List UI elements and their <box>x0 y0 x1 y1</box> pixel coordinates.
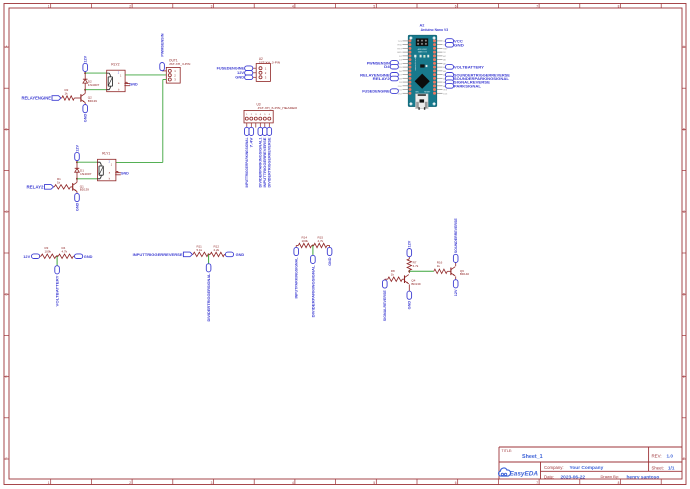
svg-text:12V: 12V <box>454 289 458 296</box>
svg-text:GND: GND <box>235 75 244 80</box>
svg-text:4.7k: 4.7k <box>62 250 68 254</box>
svg-text:1k: 1k <box>437 264 441 268</box>
svg-text:3: 3 <box>211 4 213 8</box>
svg-text:INPUTPARKINGSIGNAL: INPUTPARKINGSIGNAL <box>295 257 299 299</box>
svg-text:TITLE:: TITLE: <box>502 449 513 453</box>
svg-text:DIVIDERPARKINGSIGNAL1: DIVIDERPARKINGSIGNAL1 <box>259 138 263 188</box>
svg-text:A2: A2 <box>420 24 425 28</box>
svg-text:7: 7 <box>536 481 538 485</box>
svg-text:GND: GND <box>328 257 332 266</box>
svg-text:EasyEDA: EasyEDA <box>510 471 539 478</box>
svg-text:GND: GND <box>454 42 464 47</box>
svg-text:BD140: BD140 <box>460 272 470 276</box>
svg-text:12V: 12V <box>408 240 412 247</box>
svg-text:BD139: BD139 <box>411 282 421 286</box>
svg-text:Your Company: Your Company <box>570 465 604 471</box>
svg-text:GND: GND <box>75 202 79 211</box>
svg-text:5: 5 <box>373 481 375 485</box>
svg-text:VOLTBATTERY: VOLTBATTERY <box>56 275 60 307</box>
svg-text:RELAYENGINE: RELAYENGINE <box>22 96 52 101</box>
svg-text:12V: 12V <box>23 254 30 259</box>
svg-text:RST: RST <box>443 48 448 50</box>
svg-text:3: 3 <box>211 481 213 485</box>
svg-text:1N4007: 1N4007 <box>80 172 92 176</box>
svg-text:1: 1 <box>48 481 50 485</box>
svg-text:F: F <box>6 457 8 461</box>
svg-text:REV:: REV: <box>652 454 662 459</box>
svg-text:JST-XH_6-PIN_HEADER: JST-XH_6-PIN_HEADER <box>258 106 298 110</box>
svg-text:NANO V3: NANO V3 <box>418 50 428 53</box>
svg-text:INPUTTRIGGERPARKINGSIGNAL: INPUTTRIGGERPARKINGSIGNAL <box>245 137 249 188</box>
svg-text:RLY1: RLY1 <box>102 152 110 156</box>
svg-text:B: B <box>683 128 685 132</box>
svg-text:RELAY2: RELAY2 <box>373 76 391 81</box>
svg-text:GND: GND <box>130 83 139 87</box>
svg-text:PWMSENSIN: PWMSENSIN <box>161 33 165 56</box>
svg-text:4: 4 <box>292 4 294 8</box>
svg-text:6: 6 <box>455 4 457 8</box>
svg-text:PARKSIGNAL: PARKSIGNAL <box>454 83 482 88</box>
svg-text:1N4007: 1N4007 <box>88 83 100 87</box>
svg-text:Sheet:: Sheet: <box>652 466 664 471</box>
svg-text:Company:: Company: <box>544 465 564 470</box>
svg-text:1k: 1k <box>57 181 61 185</box>
svg-text:7: 7 <box>536 4 538 8</box>
svg-text:BD139: BD139 <box>80 188 90 192</box>
svg-text:5: 5 <box>373 4 375 8</box>
svg-text:GND: GND <box>236 252 245 257</box>
svg-text:4.7k: 4.7k <box>413 264 419 268</box>
svg-text:JST-XH_3-PIN: JST-XH_3-PIN <box>169 62 191 66</box>
svg-text:FUSEDENGINE: FUSEDENGINE <box>362 89 390 94</box>
svg-text:6: 6 <box>455 481 457 485</box>
svg-text:RST: RST <box>397 48 402 50</box>
svg-text:Drawn By:: Drawn By: <box>601 474 619 479</box>
svg-text:VOLTBATTERY: VOLTBATTERY <box>454 64 484 69</box>
svg-text:4.7k: 4.7k <box>318 239 324 243</box>
svg-text:5.1k: 5.1k <box>197 248 203 252</box>
svg-text:Sheet_1: Sheet_1 <box>522 454 543 460</box>
svg-text:12V: 12V <box>84 55 88 62</box>
svg-text:www.arduino.cc: www.arduino.cc <box>414 57 417 70</box>
svg-text:2.2k: 2.2k <box>214 248 220 252</box>
svg-text:DIVIDERTRIGGERREVERSE: DIVIDERTRIGGERREVERSE <box>268 137 272 188</box>
svg-text:12V: 12V <box>75 144 79 151</box>
svg-text:100k: 100k <box>45 250 52 254</box>
svg-text:INPUTTRIGGERREVERSE: INPUTTRIGGERREVERSE <box>133 252 183 257</box>
svg-text:E: E <box>683 375 685 379</box>
svg-text:1/1: 1/1 <box>668 466 675 471</box>
svg-text:GND: GND <box>84 254 93 259</box>
svg-text:1.0: 1.0 <box>667 454 674 459</box>
svg-text:GND: GND <box>408 301 412 310</box>
svg-text:henry santoso: henry santoso <box>627 474 660 480</box>
svg-text:2: 2 <box>129 481 131 485</box>
svg-text:RLY2: RLY2 <box>111 63 119 67</box>
svg-text:GND: GND <box>121 172 130 176</box>
svg-text:1k: 1k <box>65 92 69 96</box>
svg-text:4: 4 <box>292 481 294 485</box>
svg-text:RELAY2: RELAY2 <box>27 185 45 190</box>
svg-text:D4: D4 <box>384 64 390 69</box>
svg-text:GND: GND <box>397 52 402 54</box>
svg-text:GND: GND <box>84 114 88 123</box>
svg-text:100k: 100k <box>302 239 309 243</box>
svg-text:DIVIDERPARKINGSIGNAL: DIVIDERPARKINGSIGNAL <box>311 265 315 318</box>
svg-text:2: 2 <box>129 4 131 8</box>
svg-text:1: 1 <box>48 4 50 8</box>
svg-text:B: B <box>5 128 7 132</box>
svg-text:7.4V: 7.4V <box>250 137 254 148</box>
svg-text:DIVIDERTRIGGERSIGNAL: DIVIDERTRIGGERSIGNAL <box>207 273 211 322</box>
svg-text:8: 8 <box>618 481 620 485</box>
svg-text:Arduino Nano V3: Arduino Nano V3 <box>421 28 449 32</box>
svg-text:Date:: Date: <box>544 474 554 479</box>
svg-text:INPUTTRIGGERREVERSE: INPUTTRIGGERREVERSE <box>263 137 267 188</box>
svg-text:BD139: BD139 <box>88 99 98 103</box>
svg-text:1k: 1k <box>391 273 395 277</box>
svg-text:F: F <box>683 457 685 461</box>
svg-text:E: E <box>5 375 7 379</box>
svg-text:SIGNALREVERSE: SIGNALREVERSE <box>383 290 387 322</box>
svg-text:2023-06-22: 2023-06-22 <box>561 474 586 480</box>
svg-text:RESET: RESET <box>424 92 431 94</box>
svg-text:SOUNDERREVERSE: SOUNDERREVERSE <box>454 218 458 254</box>
svg-text:8: 8 <box>618 4 620 8</box>
